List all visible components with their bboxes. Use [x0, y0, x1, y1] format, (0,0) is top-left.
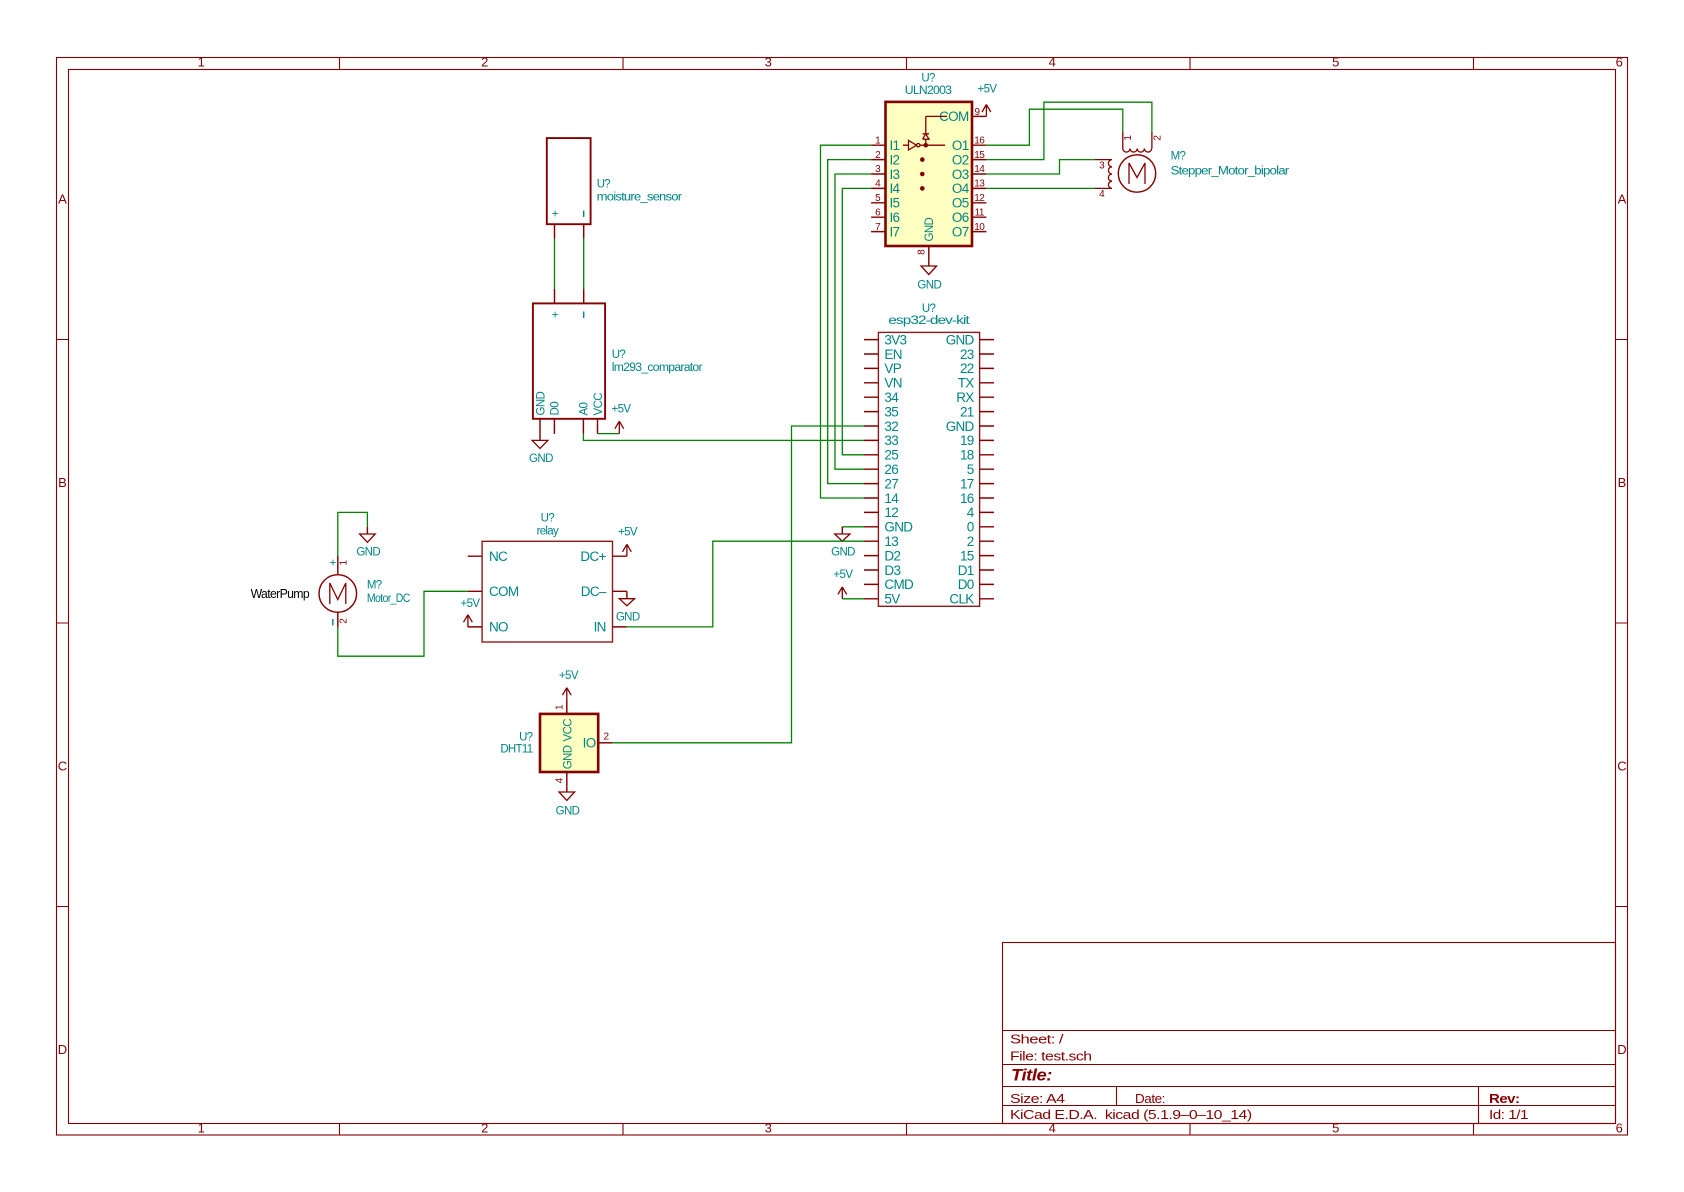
svg-text:WaterPump: WaterPump [251, 586, 310, 601]
svg-text:KiCad E.D.A. kicad (5.1.9–0–1: KiCad E.D.A. kicad (5.1.9–0–10_14) [1010, 1108, 1252, 1122]
svg-text:+5V: +5V [833, 569, 853, 581]
U? esp32 right pin stubs [980, 340, 994, 599]
svg-text:GND: GND [884, 520, 913, 535]
wire moisture - to lm293 - [583, 239, 585, 289]
U? relay right pins DC+ DC- IN [613, 556, 627, 627]
svg-text:GND: GND [917, 280, 941, 292]
svg-text:27: 27 [884, 476, 898, 491]
svg-text:Sheet: /: Sheet: / [1010, 1033, 1064, 1047]
U? ULN2003 internal diode to COM [923, 116, 947, 145]
svg-text:GND: GND [556, 806, 580, 818]
U? ULN2003 body [886, 102, 973, 246]
svg-text:O7: O7 [952, 224, 969, 239]
M? stepper coil A (top) [1123, 132, 1152, 153]
svg-text:O6: O6 [952, 210, 969, 225]
svg-text:+5V: +5V [978, 84, 998, 96]
svg-text:U?: U? [922, 303, 936, 315]
wire ULN O3 to stepper coil pin 3 [986, 160, 1094, 174]
wire ULN O1 to stepper coil pin 1 [986, 109, 1122, 145]
svg-text:2: 2 [481, 55, 488, 70]
svg-text:5: 5 [1332, 55, 1339, 70]
U? moisture_sensor body [547, 138, 591, 224]
ground symbol at lm293 GND pin [529, 434, 553, 465]
svg-text:O5: O5 [952, 196, 969, 211]
svg-text:0: 0 [967, 520, 974, 535]
svg-text:16: 16 [960, 491, 974, 506]
svg-text:17: 17 [960, 476, 974, 491]
svg-text:I7: I7 [890, 224, 900, 239]
U? lm293 top pins + - [555, 289, 584, 303]
M? Motor_DC body circle [319, 575, 357, 613]
svg-text:D3: D3 [884, 563, 900, 578]
U? DHT11 body [540, 714, 598, 772]
ground symbol at relay DC- pin [616, 591, 640, 623]
svg-text:I4: I4 [890, 181, 901, 196]
svg-text:M?: M? [1171, 150, 1186, 162]
wire esp32 27 to ULN I2 [828, 160, 871, 484]
wire esp32 14 to ULN I1 [821, 145, 872, 498]
svg-text:14: 14 [884, 491, 899, 506]
svg-text:4: 4 [1049, 1121, 1056, 1136]
svg-text:D: D [1617, 1042, 1626, 1057]
svg-text:D1: D1 [958, 563, 974, 578]
+5V symbol at relay DC+ pin [618, 526, 638, 556]
svg-text:U?: U? [597, 178, 611, 190]
svg-text:Rev:: Rev: [1489, 1092, 1520, 1106]
wire motor - to relay COM [338, 591, 468, 656]
svg-text:RX: RX [956, 390, 974, 405]
svg-text:A: A [1618, 192, 1627, 207]
svg-text:32: 32 [884, 419, 898, 434]
svg-text:IN: IN [594, 620, 606, 635]
+5V symbol at lm293 VCC pin [598, 403, 632, 433]
svg-text:5: 5 [1332, 1121, 1339, 1136]
svg-text:33: 33 [884, 433, 898, 448]
svg-text:U?: U? [541, 513, 555, 525]
svg-text:11: 11 [975, 207, 985, 218]
svg-text:relay: relay [537, 526, 559, 538]
wire lm293 A0 to esp32 pin 33 [583, 434, 864, 441]
svg-text:moisture_sensor: moisture_sensor [597, 191, 683, 203]
svg-text:M?: M? [367, 579, 382, 591]
U? ULN2003 right pins 16-10 [972, 145, 986, 231]
svg-text:GND: GND [946, 419, 975, 434]
svg-text:26: 26 [884, 462, 898, 477]
svg-text:U?: U? [612, 349, 626, 361]
svg-text:D0: D0 [550, 402, 562, 416]
M? Motor_DC pin name - (rotated bar) [332, 619, 334, 626]
svg-text:A: A [58, 192, 67, 207]
svg-text:Motor_DC: Motor_DC [367, 593, 410, 605]
svg-text:C: C [1617, 759, 1626, 774]
U? DHT11 pin 1 VCC top [566, 700, 568, 714]
svg-text:Date:: Date: [1135, 1092, 1165, 1106]
svg-text:B: B [1618, 475, 1626, 490]
svg-text:VP: VP [884, 361, 901, 376]
svg-text:DHT11: DHT11 [500, 744, 532, 756]
svg-text:DC+: DC+ [580, 549, 606, 564]
M? Motor_DC pin 2 bottom [337, 611, 339, 627]
U? lm293 bottom pins GND D0 A0 VCC [540, 419, 598, 434]
svg-text:2: 2 [481, 1121, 488, 1136]
+5V symbol at ULN2003 COM pin [978, 84, 998, 117]
op-amp driver U? ULN2003 [871, 72, 986, 260]
svg-text:D0: D0 [958, 577, 974, 592]
svg-text:VCC: VCC [562, 719, 574, 742]
svg-text:14: 14 [974, 164, 985, 175]
svg-text:GND: GND [831, 547, 855, 559]
wire esp32 26 to ULN I3 [835, 174, 871, 469]
svg-text:D2: D2 [884, 548, 900, 563]
svg-text:O2: O2 [952, 152, 969, 167]
svg-text:3: 3 [765, 55, 772, 70]
svg-text:15: 15 [974, 150, 985, 161]
U? relay body [482, 541, 612, 642]
svg-text:IO: IO [583, 735, 596, 750]
svg-text:VN: VN [884, 376, 901, 391]
svg-text:GND: GND [924, 217, 936, 241]
svg-text:2: 2 [967, 534, 974, 549]
svg-text:+: + [330, 558, 337, 570]
microcontroller U? esp32-dev-kit [864, 303, 994, 607]
U? ULN2003 internal inverter symbol [903, 140, 945, 150]
U? DHT11 pin 2 IO right [598, 742, 612, 744]
U? esp32 body [878, 332, 979, 606]
svg-text:Id: 1/1: Id: 1/1 [1489, 1108, 1529, 1122]
svg-text:35: 35 [884, 404, 898, 419]
svg-text:15: 15 [960, 548, 974, 563]
svg-text:4: 4 [1049, 55, 1056, 70]
svg-text:6: 6 [1616, 1121, 1623, 1136]
svg-text:+5V: +5V [612, 403, 632, 415]
svg-text:NO: NO [489, 620, 508, 635]
U? moisture_sensor pin - [583, 224, 585, 238]
svg-text:NC: NC [489, 549, 508, 564]
+5V symbol at relay NO pin [461, 598, 481, 627]
svg-text:16: 16 [974, 135, 985, 146]
motor M? Stepper_Motor_bipolar [1095, 132, 1290, 201]
wire moisture + to lm293 + [554, 239, 556, 289]
svg-text:12: 12 [884, 505, 898, 520]
wire relay IN to esp32 pin 13 [627, 541, 864, 627]
svg-text:5: 5 [967, 462, 974, 477]
svg-text:12: 12 [974, 193, 985, 204]
svg-text:O4: O4 [952, 181, 970, 196]
svg-text:25: 25 [884, 448, 898, 463]
relay module U? relay [468, 513, 627, 643]
svg-text:O1: O1 [952, 138, 969, 153]
U? esp32 left pin stubs [864, 340, 878, 599]
wire motor + up to GND [338, 512, 368, 556]
U? relay left pins NC COM NO [468, 556, 482, 627]
svg-text:U?: U? [519, 732, 533, 744]
svg-text:I2: I2 [890, 152, 900, 167]
svg-text:U?: U? [921, 72, 935, 84]
svg-text:I1: I1 [890, 138, 900, 153]
svg-text:I3: I3 [890, 167, 900, 182]
wire DHT11 IO to esp32 pin 32 [613, 426, 864, 743]
svg-text:lm293_comparator: lm293_comparator [612, 362, 703, 374]
svg-text:C: C [58, 759, 67, 774]
svg-text:1: 1 [198, 55, 205, 70]
svg-text:GND: GND [562, 745, 574, 769]
svg-text:13: 13 [974, 179, 985, 190]
ground symbol at DHT11 GND [556, 786, 580, 817]
M? Motor_DC M glyph [330, 583, 346, 604]
svg-text:+5V: +5V [461, 598, 481, 610]
U? lm293 body [533, 303, 605, 418]
svg-text:+5V: +5V [559, 670, 579, 682]
svg-text:I5: I5 [890, 196, 900, 211]
wire ULN O2 to stepper coil pin 2 [986, 102, 1152, 159]
title block box [1003, 943, 1616, 1124]
svg-text:COM: COM [489, 584, 519, 599]
+5V symbol at esp32 5V pin [833, 569, 864, 599]
svg-text:Title:: Title: [1011, 1067, 1052, 1085]
svg-text:B: B [58, 475, 66, 490]
svg-text:GND: GND [356, 547, 380, 559]
svg-text:GND: GND [946, 332, 975, 347]
motor M? Motor_DC WaterPump [251, 556, 410, 628]
U? DHT11 pin 4 GND bottom [566, 772, 568, 786]
svg-text:ULN2003: ULN2003 [905, 85, 952, 97]
svg-text:A0: A0 [579, 402, 591, 415]
svg-text:GND: GND [616, 612, 640, 624]
svg-text:6: 6 [1616, 55, 1623, 70]
ground symbol above motor [356, 527, 380, 559]
svg-text:File: test.sch: File: test.sch [1010, 1050, 1092, 1064]
svg-text:+: + [552, 209, 559, 221]
svg-text:Size: A4: Size: A4 [1010, 1092, 1065, 1106]
svg-text:18: 18 [960, 448, 974, 463]
svg-text:3V3: 3V3 [884, 332, 906, 347]
U? ULN2003 left pins 1-7 [871, 145, 885, 231]
svg-text:+5V: +5V [618, 526, 638, 538]
comparator U? lm293_comparator [533, 289, 703, 434]
wire esp32 25 to ULN I4 [842, 188, 871, 454]
svg-text:I6: I6 [890, 210, 900, 225]
U? moisture_sensor pin name - (rotated bar) [583, 211, 585, 218]
svg-text:D: D [58, 1042, 67, 1057]
svg-text:GND: GND [529, 453, 553, 465]
svg-text:4: 4 [967, 505, 975, 520]
U? ULN2003 COM pin 9 [972, 115, 986, 117]
svg-text:1: 1 [198, 1121, 205, 1136]
svg-text:10: 10 [974, 222, 985, 233]
svg-text:23: 23 [960, 347, 974, 362]
ground symbol at ULN2003 pin 8 [917, 260, 941, 291]
svg-text:O3: O3 [952, 167, 969, 182]
svg-text:esp32-dev-kit: esp32-dev-kit [888, 315, 970, 327]
title block dividers [1003, 1031, 1616, 1124]
svg-text:TX: TX [958, 376, 975, 391]
svg-text:EN: EN [884, 347, 901, 362]
svg-text:13: 13 [884, 534, 898, 549]
M? stepper coil B (left) [1095, 160, 1112, 189]
svg-text:21: 21 [960, 404, 974, 419]
M? Motor_DC pin 1 top [337, 556, 339, 575]
svg-text:19: 19 [960, 433, 974, 448]
U? ULN2003 GND pin 8 [928, 246, 930, 260]
svg-text:+: + [552, 310, 559, 322]
svg-text:22: 22 [960, 361, 974, 376]
svg-text:CLK: CLK [949, 592, 974, 607]
svg-text:GND: GND [535, 391, 547, 415]
svg-text:CMD: CMD [884, 577, 914, 592]
M? stepper M glyph [1129, 163, 1145, 184]
U? ULN2003 junction dot O1 [924, 143, 929, 148]
svg-text:5V: 5V [884, 592, 900, 607]
ground symbol at esp32 GND pin [831, 527, 864, 559]
U? ULN2003 ditto dots [920, 157, 925, 162]
U? moisture_sensor pin + [554, 224, 556, 238]
svg-text:Stepper_Motor_bipolar: Stepper_Motor_bipolar [1171, 166, 1290, 178]
sensor U? DHT11 [500, 700, 612, 787]
M? stepper body circle [1118, 155, 1155, 192]
+5V symbol at DHT11 VCC [559, 670, 579, 700]
wire ULN O4 to stepper coil pin 4 [986, 187, 1094, 189]
svg-text:DC–: DC– [581, 584, 607, 599]
svg-text:3: 3 [765, 1121, 772, 1136]
svg-text:34: 34 [884, 390, 899, 405]
sensor U? moisture_sensor [547, 138, 682, 239]
svg-text:VCC: VCC [593, 393, 605, 416]
U? lm293 pin name - (rotated bar) [583, 312, 585, 319]
